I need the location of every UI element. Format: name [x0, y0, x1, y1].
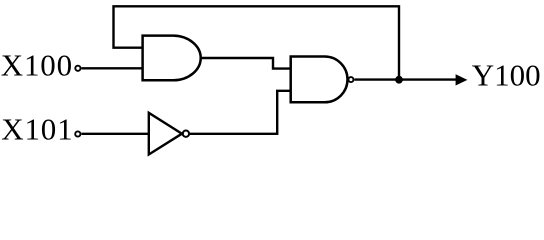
svg-text:X100: X100 — [1, 48, 73, 83]
svg-text:X101: X101 — [1, 111, 73, 146]
svg-text:Y100: Y100 — [472, 57, 541, 92]
